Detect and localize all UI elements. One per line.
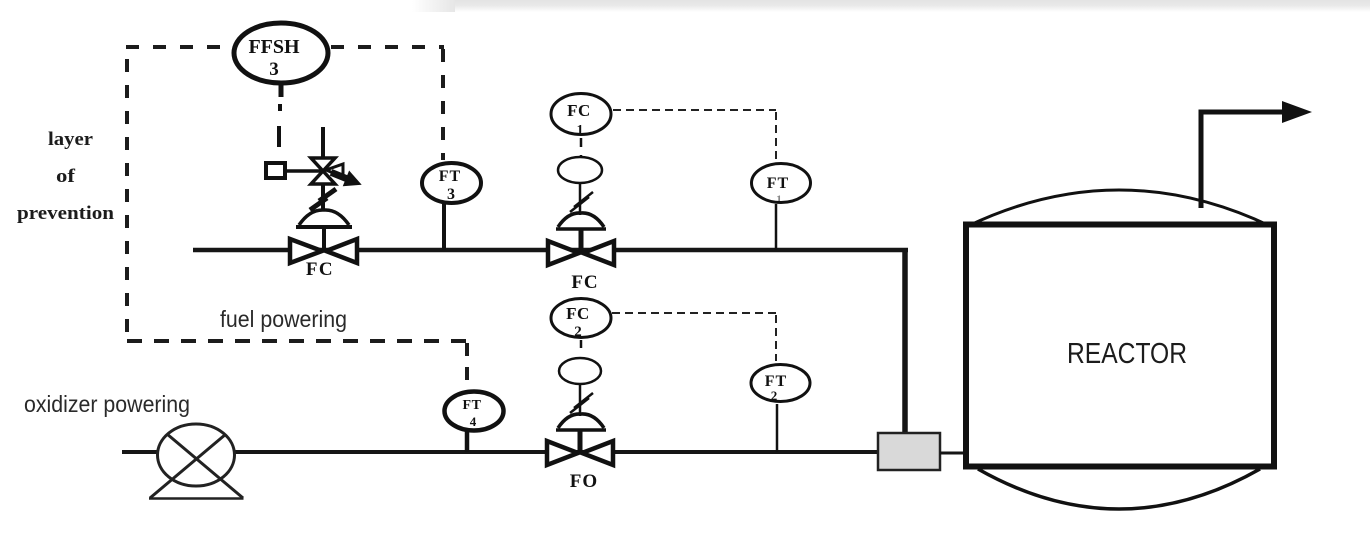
svg-text:FT: FT [439,168,461,185]
svg-text:FT: FT [767,175,789,192]
svg-text:oxidizer powering: oxidizer powering [24,391,190,417]
svg-text:FO: FO [570,471,598,492]
wire: fuel powering dashed horizontal [127,339,468,343]
main oxidizer pipe [122,450,878,454]
actuator dome (FC1 valve) [556,213,606,229]
stem and signal break (FO valve) [570,384,593,416]
fuel pipe drop to mixer [902,248,908,436]
wire: thin dashed FC1 to FT1 [613,110,776,160]
instrument bubble FT 4 [445,392,504,453]
svg-text:of: of [56,166,76,187]
solenoid reset square [266,163,285,178]
wire: square to shutoff valve [285,169,324,173]
wire: dashed FC2 to positioner [580,340,583,356]
shutoff valve body FC [290,227,357,263]
svg-text:3: 3 [447,186,455,203]
wire: thin dashed FC2 to FT2 [612,313,776,361]
svg-text:fuel powering: fuel powering [220,306,347,332]
wire: dashed vertical down to FT3 [441,49,445,160]
actuator dome of shutoff valve [296,210,352,227]
instrument bubble FC 2 [551,299,611,341]
instrument bubble FT 1 [752,164,811,251]
svg-text:layer: layer [48,129,94,150]
svg-text:3: 3 [269,59,279,80]
svg-text:FC: FC [571,272,598,293]
positioner ellipse (FO valve) [559,358,601,384]
svg-text:4: 4 [470,414,477,429]
stem and signal break (FC1 valve) [570,183,593,215]
signal break (lightning) on shutoff valve stem [310,189,336,210]
wire: FFSH interlock dashed loop (left vertical) [125,59,129,340]
control valve body FC (fuel) [548,229,614,265]
actuator dome (FO valve) [556,414,606,430]
main fuel pipe [193,248,908,253]
instrument bubble FFSH 3 [234,23,328,83]
instrument bubble FT 3 [422,163,481,250]
wire: mixer to reactor [940,452,967,455]
pump (oxidizer) [149,424,244,499]
svg-text:2: 2 [771,388,778,403]
wire: dashed FC1 to positioner [580,138,583,156]
control valve body FO (oxidizer) [547,430,613,465]
positioner ellipse (FC1 valve) [558,157,602,183]
reactor vessel [966,190,1274,509]
wire: FFSH dashed horizontal left segment [126,45,232,49]
wire: dashed signal FFSH to solenoid square [279,85,281,147]
label "layer of prevention" [17,129,114,224]
instrument bubble FT 2 [751,365,810,453]
wire: dashed vertical down to FT4 [465,343,469,389]
instrument bubble FC 1 [551,94,611,139]
mixer junction box [878,433,940,470]
emergency shutoff valve (3-way with arrow) [311,127,365,211]
svg-text:REACTOR: REACTOR [1067,338,1187,370]
wire: FFSH dashed horizontal right segment [331,45,444,49]
svg-text:1: 1 [776,192,782,206]
svg-text:1: 1 [577,123,584,138]
top gray bar [412,0,1370,12]
svg-text:FT: FT [463,398,482,413]
svg-text:prevention: prevention [17,203,114,224]
svg-text:FC: FC [566,304,590,323]
svg-text:FFSH: FFSH [248,36,300,58]
svg-text:2: 2 [574,324,582,340]
svg-text:FC: FC [306,259,334,280]
reactor outlet pipe with arrow [1201,101,1312,208]
svg-text:FC: FC [567,101,591,120]
